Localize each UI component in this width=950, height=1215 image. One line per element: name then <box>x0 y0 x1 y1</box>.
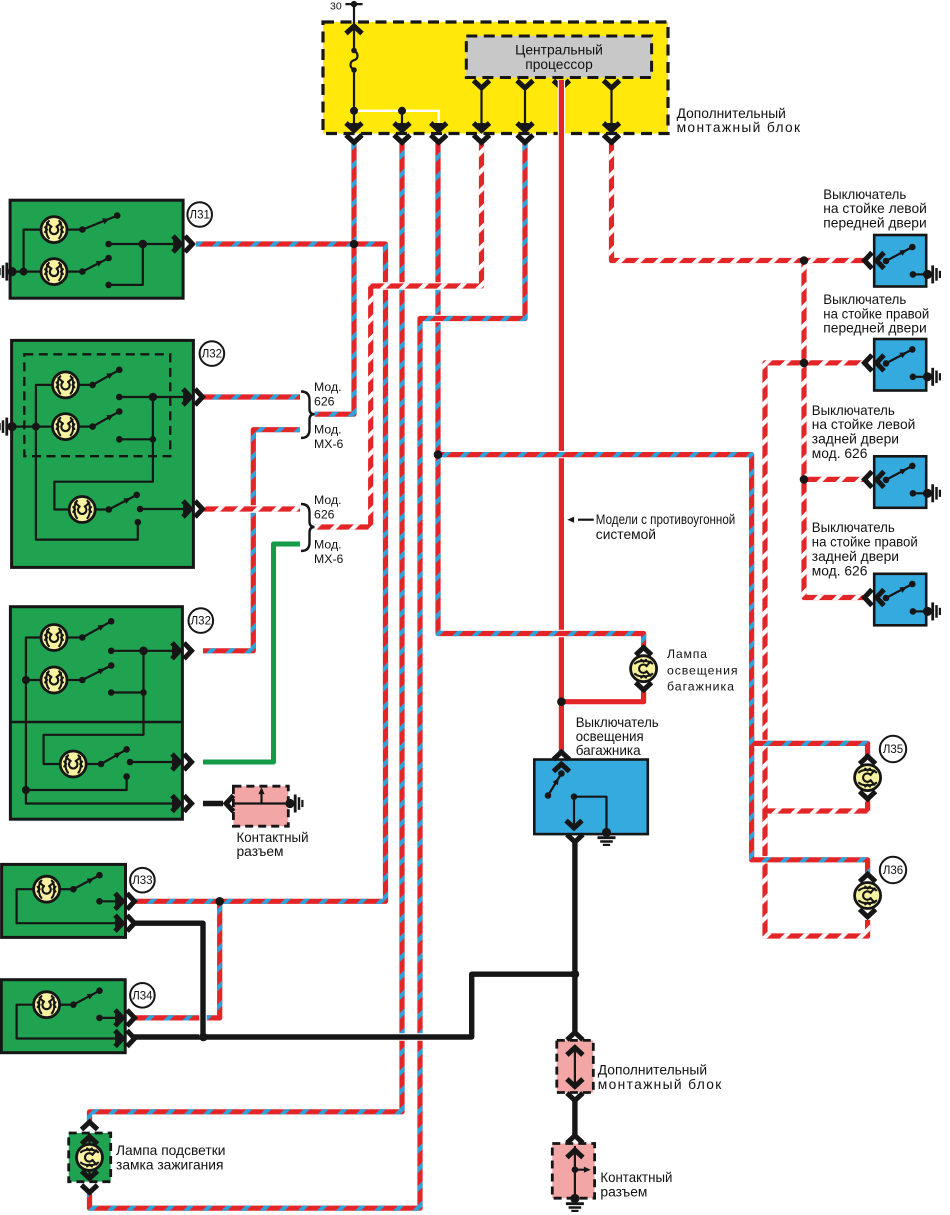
label Mod MX-6 lower <box>314 537 344 566</box>
auxiliary fuse/junction box (yellow block) <box>323 22 668 134</box>
L32 sw3 feed <box>95 508 109 510</box>
courtesy lamp unit L32 (green block with inner dashed module) <box>12 340 194 567</box>
svg-text:Мод.: Мод. <box>314 380 342 394</box>
wire red/blue: L31 output across to L33 output <box>131 244 386 901</box>
ground door switch 4 ground <box>923 602 940 620</box>
svg-text:Л35: Л35 <box>883 744 903 756</box>
lamp Л33 bulb <box>34 876 60 902</box>
svg-text:626: 626 <box>314 395 335 409</box>
door jamb switch 1 (blue box) <box>874 235 926 287</box>
wire black: lower L32 block to contact connector <box>203 800 223 807</box>
svg-text:освещения: освещения <box>576 729 644 744</box>
door switch 3 lower contact <box>913 492 927 494</box>
svg-text:багажника: багажника <box>576 743 641 758</box>
label door switch 3 <box>812 403 916 461</box>
wire red/blue branch to courtesy lamps L35/L36 <box>438 455 868 874</box>
L31 output row <box>109 243 180 245</box>
svg-text:на стойке правой: на стойке правой <box>823 306 929 321</box>
label trunk lamp <box>667 647 738 694</box>
svg-text:передней двери: передней двери <box>823 321 926 336</box>
lamp L31 bulb 1 <box>41 217 67 243</box>
svg-text:Выключатель: Выключатель <box>823 187 906 202</box>
aux pink box internals <box>574 1047 576 1087</box>
lamp L32 bulb 3 <box>69 497 95 523</box>
contact connector (upper pink box) <box>233 786 288 826</box>
ignition lock illumination lamp (small green box) <box>69 1133 111 1182</box>
wire exit2 red/blue: yellow block to ignition-lock lamp (top) <box>90 143 403 1121</box>
svg-text:передней двери: передней двери <box>823 216 926 231</box>
wire exit5 red/blue: yellow block to ignition-lock lamp (bottom) <box>90 143 526 1208</box>
svg-text:Лампа подсветки: Лампа подсветки <box>116 1143 225 1158</box>
junction nodes <box>199 111 808 1042</box>
Л33 output connectors <box>115 893 135 909</box>
node label Л34 <box>130 983 155 1008</box>
Л33 output row <box>100 900 120 902</box>
svg-text:замка зажигания: замка зажигания <box>116 1158 223 1173</box>
lamp trunk lamp <box>631 656 657 682</box>
ground door switch 3 ground <box>923 484 940 502</box>
connector chevrons into door switch 1 <box>865 253 885 269</box>
courtesy lamp unit L32 lower (green block, two sections) <box>10 607 182 820</box>
lamp L31 bulb 2 <box>41 259 67 285</box>
svg-text:Мод.: Мод. <box>314 422 342 436</box>
L32b sw1 feed <box>67 636 83 638</box>
L31 switch 2 feed <box>67 271 83 273</box>
svg-text:МХ-6: МХ-6 <box>314 437 344 451</box>
contact connector (pink box, bottom) <box>552 1144 594 1199</box>
svg-text:освещения: освещения <box>667 663 738 677</box>
wire red/white return of lamp L35 <box>765 800 868 812</box>
switch lever L31 sw1 <box>79 212 120 233</box>
ground upper contact connector ground <box>285 795 302 813</box>
wire exit1 red/blue: yellow block to brace Mod.626 (L32 out1) <box>315 143 355 414</box>
pin line from CPU at x=525 <box>524 88 526 130</box>
L32b internal bus <box>26 638 177 804</box>
switch lever Л33 switch <box>70 872 103 893</box>
svg-text:Центральный: Центральный <box>515 43 603 58</box>
brace selector (lower, for L32 out2) <box>301 504 315 551</box>
trunk switch fixed contacts and ground leg <box>574 797 607 829</box>
svg-text:на стойке правой: на стойке правой <box>812 535 918 550</box>
svg-text:Контактный: Контактный <box>600 1170 672 1185</box>
svg-text:процессор: процессор <box>525 57 593 72</box>
Л34 output connectors <box>115 1010 135 1026</box>
courtesy lamp Л35 <box>860 756 876 799</box>
label contact connector upper <box>237 830 309 859</box>
L32 internal bus <box>12 385 138 540</box>
svg-text:Л34: Л34 <box>132 990 153 1002</box>
connector chevron at block top (terminal 30 entry) <box>346 26 362 34</box>
switch lever L32b sw3 <box>98 746 130 767</box>
switch lever L32b sw1 <box>79 618 114 641</box>
L32b sw3 fixed contact to output 2 <box>130 761 177 763</box>
node: internal bus of yellow block (white jumper) <box>350 107 439 130</box>
svg-text:Выключатель: Выключатель <box>812 403 895 418</box>
wire exit4 red/white: yellow block to brace Mod.626 (L32 out2) <box>315 143 482 527</box>
wire L32 output-1 stub to brace (Mod.626) <box>203 393 300 400</box>
chevrons around aux pink box <box>567 1032 583 1100</box>
L32 sw2 feed <box>78 426 93 428</box>
L31 switch 1 feed <box>67 229 83 231</box>
wire red/blue stub to lamp L35 <box>752 743 868 755</box>
lamp ignition lock lamp <box>77 1144 103 1170</box>
svg-text:Лампа: Лампа <box>667 647 707 661</box>
trunk light switch (blue box) <box>534 760 648 835</box>
svg-text:Выключатель: Выключатель <box>812 520 895 535</box>
svg-text:МХ-6: МХ-6 <box>314 552 344 566</box>
ground L31 chassis ground <box>0 263 17 281</box>
wire red/blue link L33 to L34 <box>131 901 220 1018</box>
svg-text:Мод.: Мод. <box>314 537 342 551</box>
upper pink box internals <box>233 792 288 804</box>
wire green wire Mod.MX-6 to lower L32 block out2 <box>203 544 300 762</box>
svg-text:багажника: багажника <box>667 680 734 694</box>
wire black: between aux box and contact connector <box>571 1101 578 1136</box>
CPU module (gray box) <box>466 36 651 78</box>
svg-text:мод. 626: мод. 626 <box>812 446 868 461</box>
svg-text:задней двери: задней двери <box>812 549 899 564</box>
node label Л32 lower <box>189 608 214 633</box>
L32b output connectors <box>172 643 192 659</box>
inner dashed sub-module of L32 <box>24 354 170 456</box>
svg-text:Л32: Л32 <box>191 616 211 628</box>
door-operated lamp unit Л33 (green block) <box>2 864 126 937</box>
ground final ground <box>566 1194 584 1211</box>
L32 output connectors <box>183 389 203 405</box>
chevrons around ignition lamp box <box>82 1122 98 1193</box>
ground door switch 2 ground <box>923 368 940 386</box>
svg-text:Л32: Л32 <box>202 349 222 361</box>
L31 output connector <box>173 236 193 252</box>
switch lever trunk switch lever <box>545 770 565 799</box>
wire black: ground bus to L33/L34 <box>131 974 575 1037</box>
svg-text:Выключатель: Выключатель <box>576 715 659 730</box>
door-operated lamp unit Л34 (green block) <box>1 980 125 1053</box>
label aux box bottom <box>598 1062 722 1091</box>
label door switch 4 <box>812 520 918 578</box>
door switch 4 lower contact <box>913 610 927 612</box>
connector chevron before upper pink box <box>226 796 234 812</box>
lamp Л34 bulb <box>34 992 60 1018</box>
terminal 30 feed <box>345 1 362 48</box>
anti-theft note arrow <box>567 517 593 523</box>
circuit breaker inside yellow block <box>350 48 357 130</box>
wire joint patch at L35 return tee <box>762 803 767 819</box>
switch lever L32 sw3 <box>106 492 141 513</box>
connector chevrons into door switch 4 <box>865 590 885 606</box>
wire black: L33 lower output to ground bus <box>131 923 203 1037</box>
svg-text:Л36: Л36 <box>883 865 903 877</box>
wire black: trunk switch to auxiliary box connector <box>571 842 578 1032</box>
switch lever L32 sw2 <box>89 408 122 430</box>
wire brace Mod.MX-6 wire down to lower L32 block out1 <box>203 430 300 651</box>
lamp L32 bulb 2 <box>53 414 79 440</box>
connector chevrons at trunk switch bottom <box>566 821 583 843</box>
L31 internal wiring <box>12 230 41 272</box>
door switch 2 lower contact <box>913 376 927 378</box>
wire red/white vertical bus along door switches <box>804 261 865 598</box>
svg-text:Контактный: Контактный <box>237 830 309 845</box>
interior lamp unit L31 (green block) <box>10 200 183 298</box>
node label Л33 <box>130 868 155 893</box>
lamp L32 bulb 1 <box>53 372 79 398</box>
switch lever L31 sw2 <box>79 255 112 275</box>
wire solid red: CPU to trunk light switch <box>558 80 565 752</box>
node label Л35 <box>880 736 906 762</box>
lamp L32b bulb 2 <box>41 667 67 693</box>
wire L32 output-2 stub to brace (Mod.626) <box>203 505 300 512</box>
connector chevrons at yellow block bottom <box>346 123 620 143</box>
label trunk switch <box>576 715 659 758</box>
wire stub front-right door switch + return bus of lamps L35/L36 <box>765 363 868 936</box>
connector chevrons under CPU box <box>474 81 620 89</box>
wire joint patch at L35 feed tee <box>749 735 754 752</box>
Л34 output row <box>100 1017 120 1019</box>
node label Л31 <box>187 202 212 227</box>
wire exit3 red/blue: yellow block to trunk lamp <box>438 143 644 647</box>
label Mod 626 lower <box>314 493 342 522</box>
label 30 <box>330 1 342 13</box>
label door switch 2 <box>823 292 929 336</box>
pin line from CPU at x=481.5 <box>480 88 482 130</box>
svg-text:Л31: Л31 <box>190 210 210 222</box>
svg-text:на стойке левой: на стойке левой <box>823 201 927 216</box>
chevron above bottom contact connector <box>567 1136 583 1144</box>
svg-text:мод. 626: мод. 626 <box>812 563 868 578</box>
label ignition lamp <box>116 1143 225 1173</box>
L31 lower row <box>109 244 143 285</box>
label aux box top <box>677 106 801 135</box>
bottom contact connector internals <box>575 1146 585 1197</box>
door jamb switch 3 (blue box) <box>874 456 926 508</box>
node label Л36 <box>880 857 906 883</box>
switch lever door switch 1 lever <box>883 244 916 265</box>
lamp L32b bulb 1 <box>41 625 67 651</box>
label Mod MX-6 upper <box>314 422 344 451</box>
Л34 internal wiring <box>17 1005 119 1039</box>
L32b sw3 feed <box>86 763 101 765</box>
wire exit6 red/white: yellow block to front-left door switch <box>612 143 865 261</box>
trunk light lamp <box>636 648 652 691</box>
svg-text:626: 626 <box>314 508 335 522</box>
switch lever door switch 4 lever <box>883 581 916 602</box>
node label Л32 upper <box>200 341 225 366</box>
pin line from CPU at x=611.5 <box>610 88 612 130</box>
svg-text:на стойке левой: на стойке левой <box>812 417 916 432</box>
svg-text:Л33: Л33 <box>132 875 152 887</box>
Л33 internal wiring <box>17 889 119 923</box>
switch lever Л34 switch <box>70 987 103 1008</box>
svg-text:Мод.: Мод. <box>314 493 342 507</box>
ground trunk switch internal ground <box>598 828 616 845</box>
svg-text:разъем: разъем <box>237 844 284 859</box>
connector chevrons into door switch 2 <box>865 355 885 371</box>
lamp Л35 <box>855 765 881 791</box>
svg-text:разъем: разъем <box>600 1185 647 1200</box>
door switch 1 lower contact <box>913 273 927 275</box>
connector chevrons at trunk switch top <box>553 752 569 772</box>
switch lever door switch 2 lever <box>883 346 916 367</box>
label door switch 1 <box>823 187 927 231</box>
svg-text:задней двери: задней двери <box>812 432 899 447</box>
L32b sw2 feed <box>67 679 83 681</box>
L32 sw1 feed <box>78 384 93 386</box>
wire stub to rear-left door switch <box>804 476 865 483</box>
switch lever L32 sw1 <box>89 367 122 389</box>
lamp Л36 <box>855 883 881 909</box>
svg-text:30: 30 <box>330 1 342 13</box>
switch lever door switch 3 lever <box>883 463 916 484</box>
door jamb switch 4 (blue box) <box>874 574 926 626</box>
svg-text:системой: системой <box>596 527 656 542</box>
svg-text:Модели с противоугонной: Модели с противоугонной <box>596 512 736 527</box>
label CPU <box>515 43 603 73</box>
svg-text:Дополнительный: Дополнительный <box>598 1062 707 1077</box>
label anti-theft note <box>596 512 736 542</box>
courtesy lamp Л36 <box>860 874 876 917</box>
svg-text:Выключатель: Выключатель <box>823 292 906 307</box>
L32 output row 1 <box>119 396 190 398</box>
label contact connector bottom <box>600 1170 672 1200</box>
door jamb switch 2 (blue box) <box>874 339 926 391</box>
switch lever L32b sw2 <box>79 662 114 683</box>
ignition lamp internals <box>88 1138 90 1177</box>
svg-text:Дополнительный: Дополнительный <box>677 106 786 121</box>
L32b row 2 and link to bulb 3 <box>44 651 144 764</box>
L32b output row 1 <box>111 650 177 652</box>
connector chevrons into door switch 3 <box>865 471 885 487</box>
ground door switch 1 ground <box>923 265 940 283</box>
auxiliary fuse box connector (pink box, bottom middle) <box>557 1040 594 1092</box>
lamp L32b bulb 3 <box>60 751 86 777</box>
ground L32 chassis ground <box>0 418 17 436</box>
wire solid red: trunk lamp return to switch wire <box>561 691 643 702</box>
L32 sw3 fixed contact to output 2 <box>140 508 190 510</box>
brace selector (upper, for L32 out1) <box>301 392 315 439</box>
L32 row 2 and link down to bulb 3 <box>54 397 152 510</box>
label Mod 626 upper <box>314 380 342 409</box>
